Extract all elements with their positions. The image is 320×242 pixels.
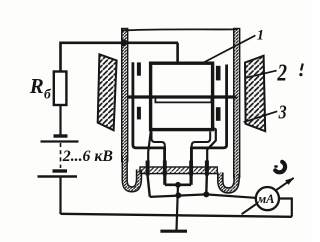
left lead bead at seal — [146, 161, 150, 176]
svg-text:3: 3 — [278, 101, 287, 123]
cathode lead beads at seal — [163, 161, 167, 176]
wire B from left box lead to meter — [150, 194, 256, 198]
left cathode plate — [133, 62, 165, 167]
svg-text:1: 1 — [257, 28, 264, 44]
wire resistor to battery — [59, 105, 61, 135]
left electrode bars — [137, 62, 141, 75]
right lead bead at seal — [205, 161, 209, 176]
wire drop to anode box top — [176, 43, 179, 64]
svg-text:2...6 кВ: 2...6 кВ — [62, 148, 113, 165]
left funnel branch from box bottom to seal lead — [152, 132, 165, 168]
left box lead through seal — [148, 130, 151, 164]
meter loop right side — [279, 199, 292, 217]
meter circle — [256, 187, 279, 210]
pointer line to 1 — [202, 35, 255, 63]
left lead below seal to wire B — [148, 176, 150, 197]
junction dot — [175, 192, 181, 198]
right lead below seal to junction — [205, 176, 208, 195]
bottom bus wire — [61, 214, 292, 217]
right funnel branch from box bottom to seal lead — [192, 132, 211, 168]
resistor Rб body — [54, 72, 67, 106]
left magnet pole (hatched) — [98, 54, 117, 130]
right cathode plate — [191, 65, 226, 168]
svg-text:мА: мА — [257, 192, 275, 206]
junction where wire crosses left tube wall — [121, 39, 128, 46]
pointer line to 3 — [244, 111, 278, 122]
svg-text:б: б — [44, 87, 52, 102]
divider plate wall-to-wall — [128, 95, 236, 98]
battery bottom cell short plate — [53, 169, 68, 172]
anode box — [151, 63, 213, 129]
center cathode wire to ground — [177, 185, 179, 230]
wire from resistor top to tube (top-left corner wire) — [61, 43, 179, 73]
meter needle arrowhead — [285, 178, 294, 185]
battery top cell long plate — [41, 140, 79, 142]
battery GB top cell short plate — [54, 134, 68, 137]
press seal (hatched bar) — [140, 167, 217, 174]
junction dot on link bar — [175, 182, 181, 188]
right magnet pole (hatched) — [245, 56, 265, 132]
ground bar — [160, 230, 187, 233]
dashed link between battery cells — [60, 143, 62, 168]
top glass line of envelope — [122, 29, 237, 30]
stray mark near 2 — [301, 64, 303, 71]
wire battery to bottom bus — [59, 178, 61, 215]
bottom-right glass curve — [220, 173, 236, 191]
right electrode bars — [216, 66, 221, 81]
link bar under seal (line A) — [165, 184, 191, 187]
bottom-left glass curve — [125, 156, 139, 189]
svg-text:2: 2 — [277, 60, 288, 87]
leads from seal to link bar — [163, 176, 166, 185]
ink scribble artifact — [275, 162, 285, 173]
battery bottom cell long plate — [38, 175, 78, 178]
pointer line to 2 — [245, 71, 277, 78]
inner plate line — [155, 97, 211, 102]
right box lead through seal — [207, 127, 216, 164]
left glass wall (hatched) — [122, 29, 128, 162]
svg-text:R: R — [29, 74, 44, 98]
meter needle rear segment — [242, 178, 294, 214]
junction dot — [203, 191, 209, 197]
right glass wall (hatched) — [234, 29, 240, 178]
